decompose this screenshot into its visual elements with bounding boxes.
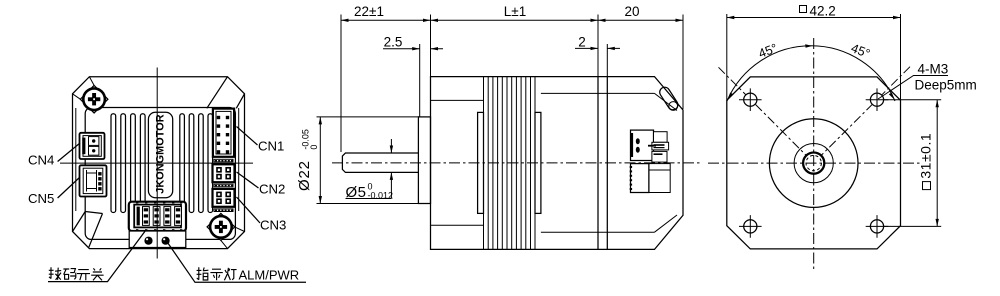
connector CN2 <box>213 164 235 182</box>
svg-text:Deep5mm: Deep5mm <box>915 78 977 93</box>
heatsink fin 3 <box>131 114 136 213</box>
screw head bottom-right <box>210 216 232 238</box>
pilot boss circle <box>769 119 858 208</box>
dim text square 42.2 <box>800 6 807 13</box>
motor body octagon <box>73 77 245 249</box>
LED strip <box>129 231 186 248</box>
corner bevel bottom-left <box>73 212 103 248</box>
CN2 pad strip <box>214 184 233 187</box>
connector CN1 <box>213 109 234 157</box>
stator lamination stack <box>484 77 536 250</box>
mounting hole BL <box>739 215 762 238</box>
driver board outline <box>85 108 235 240</box>
centerline vertical <box>156 68 158 259</box>
svg-text:CN3: CN3 <box>260 218 286 233</box>
leader CN3 <box>237 197 261 223</box>
corner bevel top-right <box>207 77 245 109</box>
dim square 31 ext lines <box>884 100 941 227</box>
svg-text:CN4: CN4 <box>28 153 54 168</box>
svg-text:2.5: 2.5 <box>384 35 403 50</box>
svg-text:2: 2 <box>578 35 586 50</box>
LED ALM <box>162 237 170 245</box>
side connector cluster <box>630 130 671 192</box>
lower connector profile <box>631 164 649 193</box>
centerline vertical <box>813 38 815 272</box>
svg-text:CN5: CN5 <box>28 191 54 206</box>
45deg dimension arc <box>727 46 895 101</box>
svg-text:-0.05: -0.05 <box>301 129 311 150</box>
svg-text:-0.012: -0.012 <box>368 191 394 201</box>
LED PWR <box>144 237 152 245</box>
connector CN3 <box>213 189 235 207</box>
svg-text:CN1: CN1 <box>258 139 284 154</box>
leader CN1 <box>237 127 258 146</box>
dim Ø22 <box>317 117 420 204</box>
coil end left <box>478 112 484 213</box>
dim text square 31±0.1 <box>918 133 934 190</box>
label 指示灯ALM/PWR <box>197 267 237 280</box>
shaft flat dashed circle <box>806 155 821 170</box>
mounting hole TR <box>866 88 889 111</box>
CN1 pad strip <box>214 159 233 162</box>
leader 4-M3 <box>878 76 948 100</box>
body octagon <box>727 77 901 249</box>
screw head top-left <box>83 88 105 110</box>
leader CN2 <box>237 172 259 188</box>
dim Ø5 <box>346 139 392 199</box>
screw diamond top-left <box>80 85 108 113</box>
heatsink fin 7 <box>199 114 204 213</box>
heatsink fin 5 <box>180 114 185 213</box>
rear corner inner chamfer lines <box>655 93 678 232</box>
svg-text:L±1: L±1 <box>504 4 526 19</box>
cover lip line left <box>75 108 77 211</box>
dim line square 42.2 <box>727 14 901 100</box>
heatsink fin 8 <box>208 114 213 213</box>
dimension line top <box>341 19 683 21</box>
logo plate <box>148 112 172 197</box>
screw diamond bottom-right <box>207 213 235 240</box>
front plate chamfer lines <box>431 100 484 225</box>
phillips cross top-left <box>88 93 100 105</box>
corner screw slot on chamfer <box>658 85 680 111</box>
leader CN5 <box>58 177 80 198</box>
svg-text:CN2: CN2 <box>259 182 285 197</box>
heatsink fin 2 <box>121 114 126 213</box>
svg-text:0: 0 <box>309 145 319 150</box>
svg-text:42.2: 42.2 <box>810 4 836 19</box>
svg-text:Ø5: Ø5 <box>346 184 367 201</box>
coil end right <box>535 112 541 213</box>
centerline horizontal <box>332 162 700 164</box>
leader DIP switch label <box>48 231 145 281</box>
motor body outline <box>431 77 684 250</box>
bearing circle <box>794 144 833 183</box>
label 拨码开关 <box>49 267 104 280</box>
mounting hole BR <box>866 215 889 238</box>
svg-text:JKONGMOTOR: JKONGMOTOR <box>154 114 166 193</box>
svg-text:20: 20 <box>624 4 639 19</box>
phillips cross bottom-right <box>215 221 227 233</box>
heatsink fin 6 <box>189 114 194 213</box>
heatsink fin 1 <box>111 114 116 213</box>
shaft <box>342 153 418 172</box>
shaft circle <box>803 153 824 174</box>
svg-text:ALM/PWR: ALM/PWR <box>239 268 300 283</box>
45deg diagonal left <box>719 67 807 155</box>
connector CN4 <box>80 133 105 159</box>
mounting hole TL <box>739 88 762 111</box>
centerline horizontal <box>708 162 922 164</box>
CN3 pad strip <box>214 209 233 212</box>
joint lines (2mm flange) <box>598 77 607 250</box>
arc arrowheads at apex <box>728 44 895 99</box>
connector CN5 <box>80 165 107 196</box>
svg-text:4-M3: 4-M3 <box>918 62 949 77</box>
leader CN4 <box>58 143 80 162</box>
leader LED label <box>168 243 307 283</box>
svg-text:22±1: 22±1 <box>354 4 384 19</box>
boss <box>418 117 430 204</box>
rear housing chamfer lines <box>541 93 655 232</box>
cover lip line right <box>238 108 240 211</box>
45deg diagonal right <box>821 67 910 156</box>
centerline horizontal <box>60 162 253 164</box>
extension lines top <box>341 15 683 153</box>
svg-text:31±0.1: 31±0.1 <box>918 133 934 179</box>
arrowheads top dims <box>341 19 683 22</box>
DIP switch block <box>129 202 186 231</box>
heatsink fin 4 <box>140 114 145 213</box>
svg-text:Ø22: Ø22 <box>296 160 313 191</box>
